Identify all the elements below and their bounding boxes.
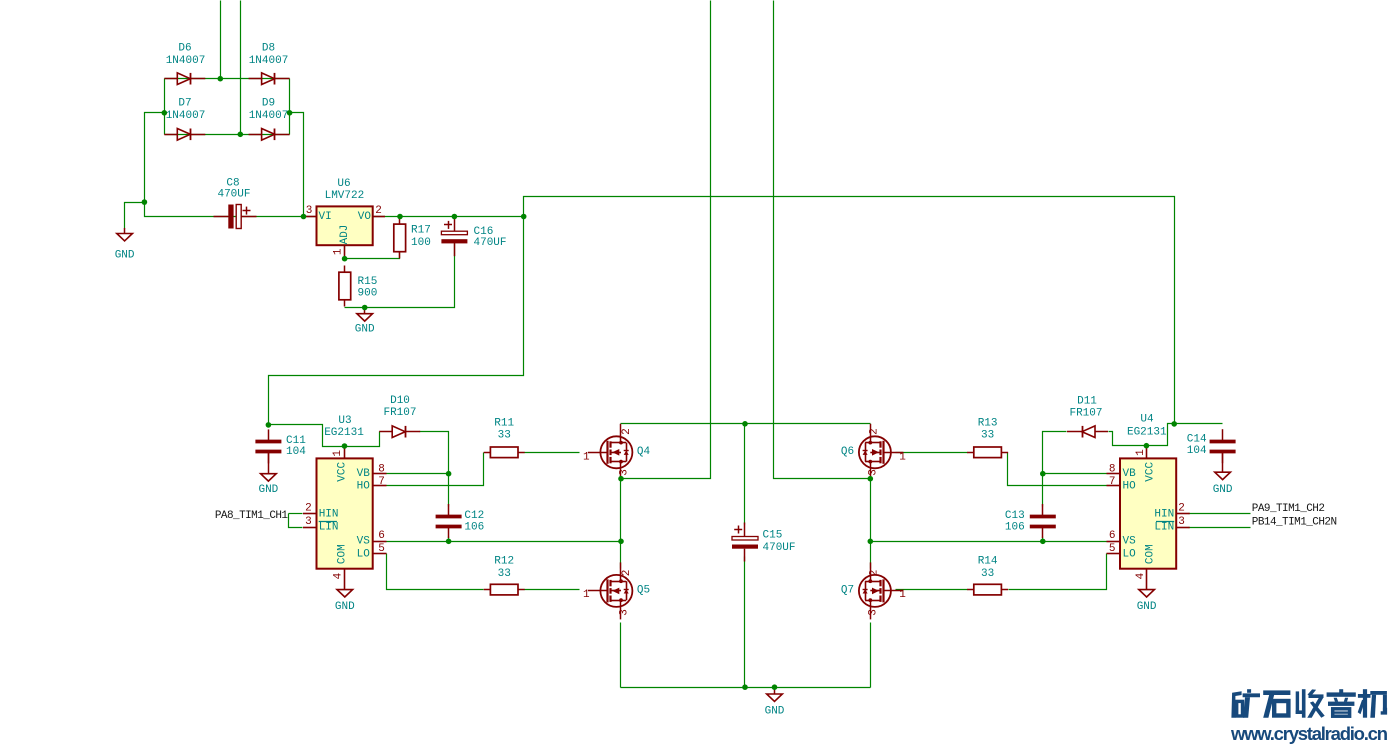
svg-text:3: 3 [305,516,312,528]
wire to U6 VI [304,216,317,218]
wire bridge positive output [290,113,304,217]
junction VB right [1040,471,1046,477]
junction bridge left [162,110,168,116]
svg-text:3: 3 [868,469,880,476]
diode D9 1N4007 [249,129,290,141]
svg-text:HIN: HIN [319,508,339,520]
svg-text:5: 5 [378,543,385,555]
junction ADJ [342,256,348,262]
resistor R14 [967,584,1008,595]
capacitor C14 104 [1210,429,1236,463]
svg-text:1: 1 [583,589,590,601]
svg-text:104: 104 [1187,445,1207,457]
svg-text:VO: VO [358,211,372,223]
wire R11 to Q4 gate [525,452,580,454]
junction VS right [868,539,874,545]
svg-text:470UF: 470UF [763,542,796,554]
junction Q6 source [868,476,874,482]
junction GND rail [142,199,148,205]
junction AC1-bridge [218,76,224,82]
svg-text:33: 33 [498,430,511,442]
svg-text:GND: GND [1213,484,1233,496]
capacitor C16 470UF [441,217,467,256]
svg-text:D7: D7 [178,98,191,110]
svg-text:1: 1 [333,248,345,255]
svg-text:8: 8 [378,464,385,476]
diode D8 1N4007 [249,73,290,85]
svg-text:Q4: Q4 [637,446,651,458]
wire Q5 source down [620,623,622,688]
junction GND bottom [772,684,778,690]
capacitor C15 plus sign [734,526,742,534]
svg-text:C15: C15 [763,530,783,542]
svg-text:R14: R14 [978,556,998,568]
diode D10 FR107 [379,426,420,438]
wire U4 VB [1043,473,1107,475]
svg-text:R15: R15 [358,276,378,288]
junction top rail right [1171,421,1177,427]
junction C11 VCC [266,422,272,428]
wire AC input 2 vertical [240,1,242,135]
svg-text:LIN: LIN [319,522,339,534]
ground left input [117,228,133,241]
svg-text:VCC: VCC [1144,462,1156,482]
capacitor C16 plus sign [444,221,452,229]
wire bridge right rail [289,79,291,135]
wire R13 to U4 HO [1008,453,1107,486]
svg-text:D8: D8 [262,43,275,55]
svg-text:www.crystalradio.cn: www.crystalradio.cn [1230,723,1388,744]
junction GND R15 [362,305,368,311]
svg-text:U3: U3 [338,415,351,427]
svg-text:ADJ: ADJ [339,225,351,245]
svg-text:PB14_TIM1_CH2N: PB14_TIM1_CH2N [1252,517,1337,529]
wire U4 LIN to PB14 label [1189,527,1251,529]
svg-text:GND: GND [355,324,375,336]
wire Q7 source down [870,623,872,688]
resistor R12 [484,584,525,595]
junction C16 [452,214,458,220]
gate-driver U4 EG2131 body [1107,446,1190,590]
svg-text:7: 7 [378,476,385,488]
svg-text:VI: VI [319,211,332,223]
capacitor C11 104 [255,429,281,463]
wire U4 VCC to top rail [1147,424,1175,446]
svg-text:VS: VS [357,536,371,548]
junction C15 top [742,421,748,427]
svg-text:EG2131: EG2131 [1127,427,1167,439]
svg-text:2: 2 [305,503,312,515]
svg-text:4: 4 [1135,572,1147,579]
resistor R15 [339,266,351,307]
svg-text:2: 2 [621,428,633,435]
svg-text:HO: HO [1123,480,1137,492]
transistor Q5 [588,562,633,619]
svg-text:1: 1 [899,452,906,464]
junction VO node [521,214,527,220]
svg-text:R17: R17 [411,225,431,237]
wire ADJ to R17 [345,253,400,259]
wire VB node down to C12 [448,474,450,507]
ground R15 [357,308,373,322]
wire VCC top rail [524,197,1175,424]
ground C11 [261,451,277,481]
svg-text:33: 33 [981,430,994,442]
junction U4 VCC [1144,443,1150,449]
junction VS-C12 [446,539,452,545]
svg-text:D11: D11 [1077,396,1097,408]
resistor R17 [394,217,406,258]
svg-text:D9: D9 [262,98,275,110]
svg-text:LO: LO [357,548,371,560]
wire U3 LO to R12 [387,554,484,590]
svg-text:2: 2 [1178,503,1185,515]
junction AC2-bridge [238,132,244,138]
svg-text:GND: GND [115,249,135,261]
svg-text:U6: U6 [337,178,350,190]
svg-text:COM: COM [1144,544,1156,564]
wire bridge row D7-D9 [165,134,290,136]
svg-text:D6: D6 [178,43,191,55]
svg-text:R11: R11 [494,417,514,429]
wire U6 VO output [373,216,524,218]
svg-text:7: 7 [1109,476,1116,488]
svg-text:LIN: LIN [1154,522,1174,534]
wire C13 to VS node right [1042,537,1044,542]
wire VS rail right [871,541,1107,543]
svg-text:3: 3 [1178,516,1185,528]
wire U4 HIN to PA9 label [1189,513,1251,515]
svg-text:106: 106 [464,522,484,534]
svg-text:GND: GND [1137,601,1157,613]
wire D11 anode to U4 VCC [1109,432,1147,446]
svg-text:VS: VS [1123,536,1137,548]
svg-text:4: 4 [333,572,345,579]
wire D10 cathode to VB node [420,432,449,474]
svg-text:Q7: Q7 [841,585,854,597]
wire to GND left [125,203,145,229]
wire to C14 [1175,423,1223,425]
svg-text:1N4007: 1N4007 [249,55,289,67]
wire VCC drop to U3 [269,217,524,425]
transistor Q4 [588,424,633,481]
svg-text:FR107: FR107 [383,407,416,419]
svg-text:R13: R13 [978,417,998,429]
svg-text:HIN: HIN [1154,508,1174,520]
capacitor C15 470UF [732,523,758,562]
junction VB left [446,471,452,477]
svg-text:3: 3 [868,609,880,616]
wire U4 LO to R14 [1009,554,1107,590]
ground U4 COM [1139,590,1155,597]
svg-text:Q6: Q6 [841,446,854,458]
capacitor C12 106 [436,504,462,538]
wire PA8 label to LIN [289,514,303,528]
svg-text:VCC: VCC [337,462,349,482]
svg-text:VB: VB [1123,468,1137,480]
transistor Q7 [859,562,904,619]
transistor Q6 [859,424,904,481]
svg-text:C14: C14 [1187,433,1207,445]
svg-text:3: 3 [618,469,630,476]
wire VB node to D11 cathode [1043,432,1067,474]
svg-text:1N4007: 1N4007 [249,110,289,122]
wire bottom GND rail [621,687,871,689]
junction VS-C13 [1040,539,1046,545]
wire Q6 source to Q7 drain [870,479,872,569]
wire C11 to U3 VCC [269,425,345,447]
svg-text:3: 3 [618,609,630,616]
svg-text:8: 8 [1109,464,1116,476]
resistor R11 [484,447,525,458]
junction U3 VCC [342,443,348,449]
svg-text:HO: HO [357,480,371,492]
svg-text:C12: C12 [464,510,484,522]
svg-text:EG2131: EG2131 [324,427,364,439]
svg-text:2: 2 [375,205,382,217]
diode D6 1N4007 [164,73,205,85]
junction bridge right [287,110,293,116]
wire PA8 label to HIN [289,513,303,515]
wire U3 HO to R11 [387,453,484,486]
junction VS left [618,539,624,545]
svg-text:R12: R12 [494,556,514,568]
svg-text:GND: GND [335,601,355,613]
wire Q4 source to Q5 drain [620,479,622,569]
svg-text:PA9_TIM1_CH2: PA9_TIM1_CH2 [1252,503,1325,515]
svg-text:COM: COM [337,544,349,564]
svg-text:1N4007: 1N4007 [166,110,206,122]
wire C12 to VS node [448,537,450,542]
wire phase A vertical [621,1,711,479]
junction Q4 source [618,476,624,482]
diode D11 FR107 [1067,426,1108,438]
svg-text:C11: C11 [286,435,306,447]
wire U3 VB to C12 [387,473,449,475]
ground bottom rail [767,687,783,701]
ground U3 COM [337,590,353,597]
U3 pin LIN overline [319,521,337,523]
svg-text:Q5: Q5 [637,585,650,597]
wire phase B vertical [774,1,871,479]
wire to C15 plus [744,424,746,525]
wire bridge row D6-D8 [165,78,290,80]
svg-text:GND: GND [765,706,785,718]
wire bridge left rail [164,79,166,135]
capacitor C13 106 [1030,504,1056,538]
wire R12 to Q5 gate [525,589,580,591]
junction R17 top [397,214,403,220]
junction C15 bottom [742,684,748,690]
resistor R13 [967,447,1008,458]
svg-text:2: 2 [621,570,633,577]
svg-text:33: 33 [981,568,994,580]
junction VI input [301,214,307,220]
svg-text:5: 5 [1109,543,1116,555]
svg-text:LO: LO [1123,548,1137,560]
svg-text:6: 6 [1109,530,1116,542]
U4 pin LIN overline [1156,521,1174,523]
svg-text:D10: D10 [390,395,410,407]
svg-text:C13: C13 [1005,510,1025,522]
svg-text:900: 900 [358,287,378,299]
wire VS rail left [387,541,621,543]
wire C15 minus to bottom rail [744,557,746,688]
svg-text:2: 2 [869,428,881,435]
wire bridge negative output [145,113,165,203]
wire R15 to GND rail to C16 [345,241,455,308]
svg-text:1N4007: 1N4007 [166,55,206,67]
svg-text:106: 106 [1005,522,1025,534]
svg-text:470UF: 470UF [474,237,507,249]
svg-text:104: 104 [286,446,306,458]
svg-text:100: 100 [411,237,431,249]
op-amp U6 LMV722 body [304,206,385,258]
wire Q6 gate to R13 [896,452,968,454]
wire AC input 1 vertical [220,1,222,79]
svg-text:GND: GND [258,484,278,496]
wire GND rail to C8 [145,203,304,217]
svg-text:470UF: 470UF [217,188,250,200]
svg-text:2: 2 [869,570,881,577]
svg-text:FR107: FR107 [1069,407,1102,419]
capacitor C8 470UF [214,205,257,229]
svg-text:U4: U4 [1140,414,1154,426]
ground C14 [1215,451,1231,479]
gate-driver U3 EG2131 body [303,446,387,590]
svg-text:1: 1 [1135,449,1147,456]
diode D7 1N4007 [164,129,205,141]
svg-text:3: 3 [306,205,313,217]
svg-text:PA8_TIM1_CH1: PA8_TIM1_CH1 [215,510,289,522]
svg-text:6: 6 [378,530,385,542]
wire VB node right down to C13 [1042,474,1044,507]
svg-text:1: 1 [899,589,906,601]
wire half-bridge top rail [621,423,871,425]
svg-text:33: 33 [498,568,511,580]
svg-text:1: 1 [332,450,344,457]
wire U3 VCC to D10 anode [345,432,380,447]
svg-text:VB: VB [357,468,371,480]
svg-text:1: 1 [583,452,590,464]
watermark logo text [1231,689,1260,718]
wire R14 to Q7 gate [896,589,968,591]
svg-text:LMV722: LMV722 [325,190,365,202]
